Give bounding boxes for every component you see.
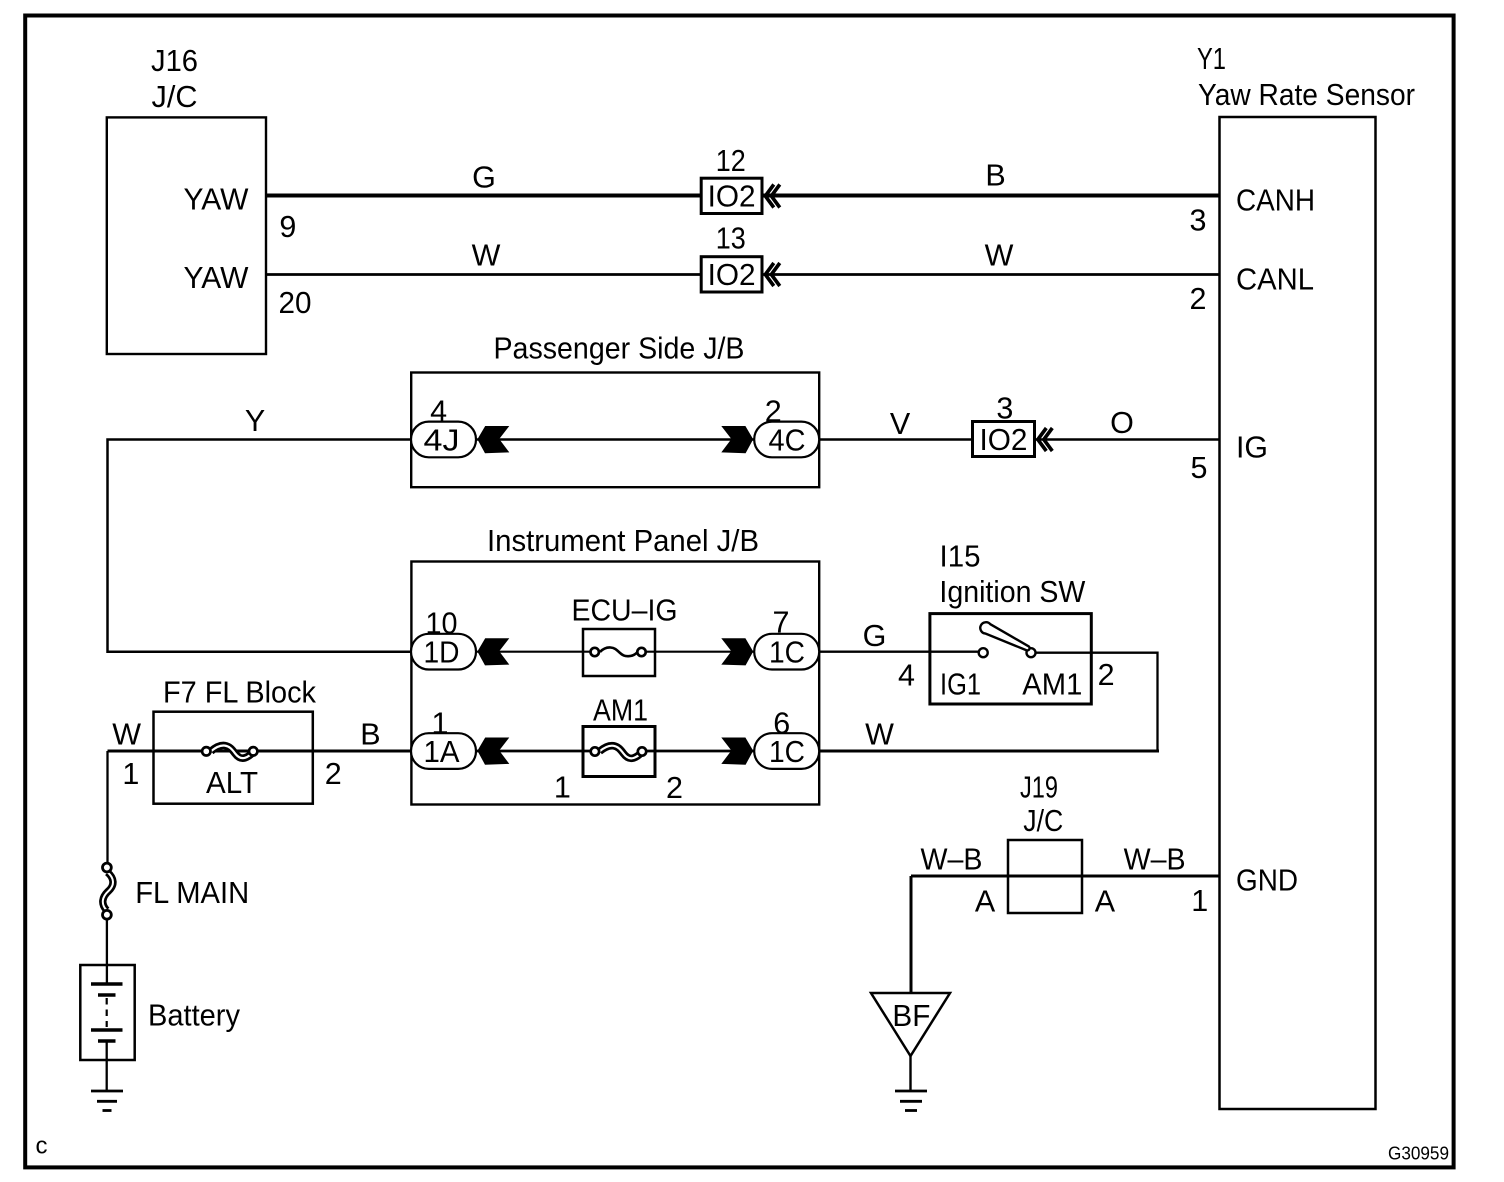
svg-text:4: 4 xyxy=(898,659,915,693)
wire W from 1C to right riser xyxy=(819,750,1159,753)
svg-text:ECU–IG: ECU–IG xyxy=(572,594,678,628)
svg-text:3: 3 xyxy=(996,392,1013,426)
svg-text:Yaw Rate Sensor: Yaw Rate Sensor xyxy=(1198,78,1415,112)
wire down to BF ground xyxy=(910,876,913,993)
chevron arrow into IO2 (13) xyxy=(765,263,780,286)
wire Y from passenger J/B to left riser xyxy=(108,440,412,652)
wire CANL left segment (W) xyxy=(266,273,701,276)
svg-text:4: 4 xyxy=(430,395,447,429)
wire GND from yaw sensor through J19 xyxy=(911,875,1220,878)
svg-text:7: 7 xyxy=(773,606,790,640)
svg-text:J19: J19 xyxy=(1020,771,1058,805)
svg-text:G30959: G30959 xyxy=(1388,1143,1449,1164)
svg-text:3: 3 xyxy=(1190,204,1207,238)
yaw rate sensor Y1 box xyxy=(1220,117,1376,1109)
wire CANH left segment (G) xyxy=(266,194,701,198)
svg-text:Y: Y xyxy=(245,404,265,438)
chevron arrow into IO2 (3) xyxy=(1038,428,1053,451)
svg-text:6: 6 xyxy=(773,707,790,741)
ground (BF) xyxy=(895,1091,927,1111)
svg-text:1: 1 xyxy=(1191,884,1208,918)
svg-text:BF: BF xyxy=(892,999,930,1033)
svg-text:F7 FL Block: F7 FL Block xyxy=(163,676,317,710)
connector IO2 (3) xyxy=(973,422,1035,458)
svg-text:FL MAIN: FL MAIN xyxy=(135,876,249,910)
wire FL MAIN to battery xyxy=(106,919,108,984)
svg-text:J/C: J/C xyxy=(152,80,198,114)
svg-text:O: O xyxy=(1110,406,1134,440)
wire row ECU-IG inside J/B xyxy=(476,651,594,653)
chevron arrow into IO2 (12) xyxy=(765,185,780,208)
wire from AM1 contact to right riser xyxy=(1036,653,1158,751)
svg-text:W: W xyxy=(112,718,141,752)
wire battery riser xyxy=(106,751,108,864)
svg-text:V: V xyxy=(890,407,911,441)
svg-text:5: 5 xyxy=(1191,451,1208,485)
svg-text:CANH: CANH xyxy=(1236,184,1315,218)
arrow right (row AM1) xyxy=(721,738,753,765)
connector oval 4J xyxy=(411,422,476,458)
svg-text:W–B: W–B xyxy=(921,843,983,877)
svg-text:Instrument Panel J/B: Instrument Panel J/B xyxy=(487,524,759,558)
arrow right (row ECU-IG) xyxy=(721,638,753,665)
svg-text:1: 1 xyxy=(432,707,449,741)
svg-text:1: 1 xyxy=(554,771,571,805)
svg-text:B: B xyxy=(985,159,1005,193)
wire row AM1 inside J/B xyxy=(476,750,595,753)
svg-text:IO2: IO2 xyxy=(708,180,756,214)
instrument panel J/B box xyxy=(411,562,819,805)
fuse ECU-IG xyxy=(583,629,655,676)
svg-text:YAW: YAW xyxy=(184,261,249,295)
connector IO2 (13) xyxy=(701,257,762,292)
arrow left (row ECU-IG) xyxy=(477,638,509,665)
connector oval 1C (6) xyxy=(754,733,819,769)
svg-text:W: W xyxy=(985,239,1014,273)
arrow left (passenger J/B) xyxy=(477,426,509,453)
ignition switch I15 box xyxy=(930,614,1091,704)
battery xyxy=(80,965,134,1091)
wire G from 1C to ignition switch xyxy=(819,651,979,653)
svg-text:2: 2 xyxy=(1098,658,1115,692)
svg-text:A: A xyxy=(975,885,996,919)
connector oval 4C xyxy=(754,422,819,458)
svg-text:W: W xyxy=(472,239,501,273)
svg-text:Y1: Y1 xyxy=(1197,42,1226,76)
wire O from IO2 to IG pin xyxy=(1035,438,1220,440)
svg-text:J/C: J/C xyxy=(1023,804,1063,838)
svg-text:IO2: IO2 xyxy=(980,423,1028,457)
wire inside passenger J/B xyxy=(476,438,754,440)
svg-text:1D: 1D xyxy=(424,636,460,670)
svg-text:ALT: ALT xyxy=(206,766,258,800)
switch lever xyxy=(980,622,1029,650)
fuse AM1 xyxy=(583,727,655,777)
svg-text:IG: IG xyxy=(1236,431,1268,465)
svg-text:12: 12 xyxy=(716,144,746,178)
connector oval 1C (7) xyxy=(754,634,819,670)
svg-text:I15: I15 xyxy=(940,540,981,574)
svg-text:2: 2 xyxy=(325,757,342,791)
wire W from F7 FL block corner xyxy=(108,750,412,753)
fusible link FL MAIN xyxy=(103,863,113,919)
svg-text:13: 13 xyxy=(716,222,746,256)
svg-text:1C: 1C xyxy=(769,636,805,670)
svg-text:AM1: AM1 xyxy=(1022,668,1082,702)
svg-text:IG1: IG1 xyxy=(940,668,981,702)
svg-text:YAW: YAW xyxy=(184,183,249,217)
svg-text:G: G xyxy=(472,161,496,195)
svg-text:Passenger Side J/B: Passenger Side J/B xyxy=(494,332,745,366)
svg-text:W: W xyxy=(865,718,894,752)
svg-text:9: 9 xyxy=(279,210,296,244)
svg-text:10: 10 xyxy=(426,607,458,641)
arrow left (row AM1) xyxy=(477,738,509,765)
svg-text:Battery: Battery xyxy=(148,999,241,1033)
svg-text:GND: GND xyxy=(1236,864,1298,898)
wire BF to ground xyxy=(909,1056,911,1091)
svg-text:A: A xyxy=(1095,885,1116,919)
junction connector J19 box xyxy=(1008,840,1082,913)
svg-text:c: c xyxy=(36,1133,48,1160)
connector oval 1A xyxy=(411,733,476,769)
svg-text:2: 2 xyxy=(666,771,683,805)
svg-text:B: B xyxy=(360,718,380,752)
arrow right (passenger J/B) xyxy=(721,426,753,453)
svg-text:J16: J16 xyxy=(151,44,198,78)
junction connector J16 box xyxy=(107,117,266,354)
svg-text:IO2: IO2 xyxy=(708,258,756,292)
svg-text:W–B: W–B xyxy=(1124,843,1186,877)
svg-text:CANL: CANL xyxy=(1236,263,1314,297)
wire CANL right segment (W) xyxy=(762,273,1220,276)
svg-text:2: 2 xyxy=(1190,282,1207,316)
connector oval 1D xyxy=(411,634,476,670)
ground (battery) xyxy=(91,1091,123,1111)
switch contact IG1 xyxy=(979,648,988,657)
connector IO2 (12) xyxy=(701,178,762,213)
svg-text:1: 1 xyxy=(122,757,139,791)
svg-text:Ignition SW: Ignition SW xyxy=(939,575,1085,609)
wire V from 4C to IO2 xyxy=(819,438,972,440)
svg-text:G: G xyxy=(863,619,887,653)
svg-text:AM1: AM1 xyxy=(593,694,648,728)
ground triangle BF xyxy=(871,993,950,1056)
svg-text:20: 20 xyxy=(279,286,312,320)
fusible link block F7 xyxy=(154,712,313,804)
wire CANH right segment (B) xyxy=(762,194,1220,198)
switch contact AM1 xyxy=(1027,648,1036,657)
passenger side J/B box xyxy=(411,373,819,488)
svg-text:2: 2 xyxy=(765,395,782,429)
